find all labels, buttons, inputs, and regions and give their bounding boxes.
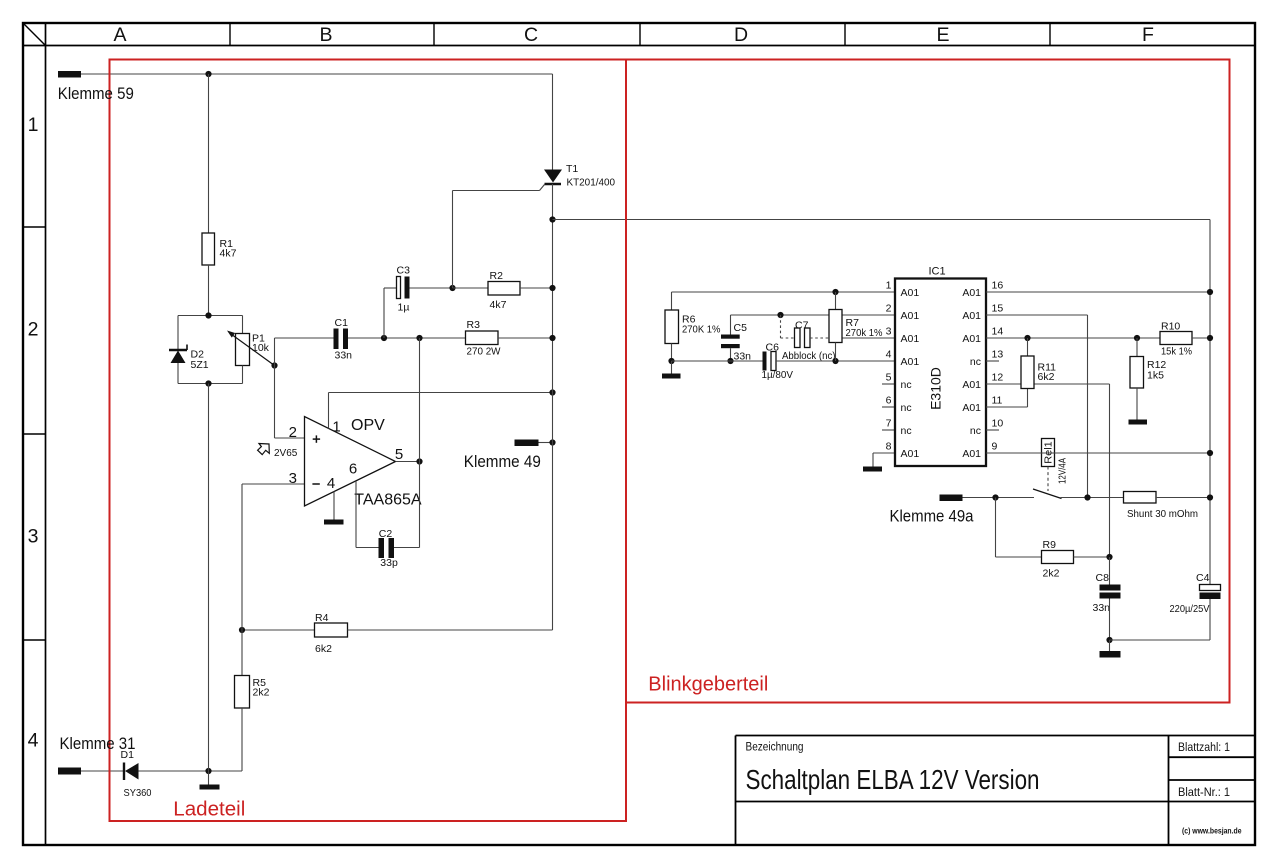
terminal Klemme 31 (58, 768, 81, 775)
svg-text:Bezeichnung: Bezeichnung (746, 740, 804, 754)
relay actuation dashed link (1047, 467, 1049, 492)
capacitor C6 (763, 352, 767, 371)
wire D2 box to bottom rail (208, 384, 210, 772)
resistor R4 (242, 629, 315, 631)
svg-text:A01: A01 (901, 333, 920, 345)
wire to R6 (671, 292, 673, 310)
svg-text:A01: A01 (962, 448, 981, 460)
wire shunt to rail (1156, 497, 1210, 499)
svg-text:12V/4A: 12V/4A (1057, 458, 1069, 484)
capacitor C8 (1109, 557, 1111, 585)
svg-text:4: 4 (28, 730, 39, 752)
svg-text:nc: nc (970, 425, 981, 437)
node R1 top (205, 71, 211, 77)
svg-text:Blatt-Nr.: 1: Blatt-Nr.: 1 (1178, 785, 1230, 799)
wire R5 to D1 rail (241, 708, 243, 771)
capacitor C1 (334, 329, 339, 350)
svg-text:C1: C1 (335, 317, 349, 329)
svg-text:270k 1%: 270k 1% (846, 327, 883, 339)
node feedback branch (416, 335, 422, 341)
wire pin2 (275, 437, 305, 439)
node pin15 junction (1084, 494, 1090, 500)
wire pin6 nc stub (882, 406, 895, 408)
wire D2 branch (177, 316, 179, 384)
svg-text:4: 4 (886, 349, 892, 361)
node pin9 rail (1207, 450, 1213, 456)
wire to R1 (208, 74, 210, 233)
resistor R10 (1160, 332, 1192, 345)
wire switch to shunt (1061, 497, 1124, 499)
svg-text:270 2W: 270 2W (467, 346, 501, 358)
svg-text:6k2: 6k2 (315, 643, 332, 655)
node output (416, 458, 422, 464)
svg-text:1: 1 (28, 114, 39, 136)
svg-text:Shunt 30 mOhm: Shunt 30 mOhm (1127, 508, 1198, 520)
svg-text:15: 15 (992, 303, 1004, 315)
svg-text:A01: A01 (962, 402, 981, 414)
node C3 branch (381, 335, 387, 341)
wire pin11 net (986, 406, 1028, 408)
svg-text:R9: R9 (1043, 539, 1057, 551)
svg-text:Rel1: Rel1 (1043, 441, 1055, 464)
svg-text:Ladeteil: Ladeteil (173, 799, 245, 821)
svg-text:E310D: E310D (928, 367, 944, 410)
wire R6 bottom (671, 344, 673, 362)
wire R2 to rail (520, 287, 553, 289)
wire Klemme49a to switch (963, 497, 1035, 499)
svg-text:10: 10 (992, 418, 1004, 430)
svg-text:A: A (113, 24, 126, 46)
capacitor C4 electrolytic (1200, 585, 1221, 591)
svg-text:5Z1: 5Z1 (191, 359, 209, 371)
resistor R3 (466, 331, 499, 345)
svg-text:nc: nc (901, 379, 912, 391)
svg-text:SY360: SY360 (124, 787, 152, 799)
terminal Klemme 49a (940, 495, 963, 502)
node R2 (549, 285, 555, 291)
svg-text:6: 6 (349, 461, 357, 478)
resistor R6 (665, 310, 679, 344)
wire R4 to rail (348, 629, 553, 631)
node R4 left (239, 627, 245, 633)
node C7 tap (777, 312, 783, 318)
svg-text:E: E (936, 24, 949, 46)
wire pin6 down (355, 481, 357, 548)
svg-text:IC1: IC1 (928, 266, 945, 278)
svg-text:A01: A01 (901, 448, 920, 460)
svg-text:R10: R10 (1161, 321, 1180, 333)
svg-text:2k2: 2k2 (1043, 568, 1060, 580)
relay switch contact (1033, 489, 1062, 499)
svg-text:10k: 10k (252, 342, 270, 354)
wire C3 branch vertical (383, 288, 385, 338)
Blinkgeberteil region box (626, 60, 1230, 703)
svg-text:2V65: 2V65 (274, 448, 298, 459)
wire right main vertical (1209, 220, 1211, 585)
node R6/gnd (668, 358, 674, 364)
node box top (205, 312, 211, 318)
node R10 rail (1207, 335, 1213, 341)
node R9 branch (992, 494, 998, 500)
svg-text:2: 2 (886, 303, 892, 315)
svg-text:Blattzahl: 1: Blattzahl: 1 (1178, 740, 1230, 754)
svg-text:3: 3 (289, 470, 297, 487)
node right branch (549, 216, 555, 222)
wire C5 bottom (730, 348, 732, 361)
svg-text:C5: C5 (734, 322, 748, 334)
wire top rail Klemme59 to T1 (81, 73, 553, 75)
svg-text:TAA865A: TAA865A (354, 492, 422, 509)
svg-text:R2: R2 (490, 270, 504, 282)
svg-text:(c) www.besjan.de: (c) www.besjan.de (1182, 826, 1242, 836)
svg-text:A01: A01 (962, 379, 981, 391)
svg-text:1: 1 (332, 419, 340, 436)
Ladeteil region box (110, 60, 627, 822)
svg-text:3: 3 (886, 326, 892, 338)
svg-text:nc: nc (970, 356, 981, 368)
node R12 top (1134, 335, 1140, 341)
node pin16 rail (1207, 289, 1213, 295)
svg-text:C: C (524, 24, 538, 46)
svg-text:C6: C6 (766, 342, 780, 354)
node wiper (271, 362, 277, 368)
svg-text:6: 6 (886, 395, 892, 407)
wire box bottom (178, 383, 243, 385)
svg-text:6k2: 6k2 (1038, 371, 1055, 383)
resistor R2 (453, 287, 489, 289)
svg-text:Klemme 59: Klemme 59 (58, 85, 134, 103)
wire R3 to rail (498, 337, 553, 339)
wire pin12 net (986, 383, 1110, 385)
node R3 (549, 335, 555, 341)
ground R6 (671, 361, 673, 374)
wire top branch to right part (553, 219, 1211, 221)
wire pin16 net (986, 291, 1210, 293)
svg-text:Blinkgeberteil: Blinkgeberteil (648, 674, 768, 696)
ground pin8 (863, 467, 882, 472)
svg-text:nc: nc (901, 402, 912, 414)
svg-text:1k5: 1k5 (1147, 370, 1164, 382)
svg-text:A01: A01 (901, 356, 920, 368)
wire pin1 to rail (329, 392, 553, 394)
wire to C5 (730, 315, 732, 335)
svg-text:OPV: OPV (351, 417, 385, 434)
svg-text:12: 12 (992, 372, 1004, 384)
resistor R9 (995, 498, 997, 558)
resistor R1 (202, 233, 215, 265)
wire pin1 net (672, 291, 896, 293)
title block (736, 736, 1256, 846)
svg-text:A01: A01 (962, 287, 981, 299)
svg-text:nc: nc (901, 425, 912, 437)
svg-text:14: 14 (992, 326, 1004, 338)
wire pin3 (242, 483, 305, 485)
wire C2 to feedback (394, 547, 420, 549)
svg-text:1µ: 1µ (398, 302, 410, 314)
capacitor C7 plate (795, 328, 801, 348)
svg-text:4: 4 (327, 475, 335, 492)
svg-text:2: 2 (289, 424, 297, 441)
wire to C2 (356, 547, 379, 549)
capacitor C5 (721, 335, 740, 339)
svg-text:8: 8 (886, 441, 892, 453)
node R11 top (1024, 335, 1030, 341)
node box bottom (205, 380, 211, 386)
resistor R7 (835, 292, 837, 310)
wire R1 to D2/P1 box (208, 265, 210, 316)
ground C8 (1109, 640, 1111, 651)
wire pin3 node down to R5 (241, 484, 243, 676)
wire pin1 riser (328, 393, 330, 429)
terminal Klemme 59 (58, 71, 81, 78)
node R7 top (832, 289, 838, 295)
resistor R11 (1027, 338, 1029, 356)
capacitor C7 dashed net (780, 315, 782, 338)
wire pin15 net (986, 314, 1088, 316)
node R9/C8 (1106, 554, 1112, 560)
svg-text:1µ/80V: 1µ/80V (762, 369, 794, 381)
wire pin8 to ground (873, 452, 895, 454)
svg-text:A01: A01 (901, 287, 920, 299)
wire main vertical rail (552, 184, 554, 630)
svg-text:16: 16 (992, 280, 1004, 292)
wire P1 bottom (242, 366, 244, 384)
node shunt rail (1207, 494, 1213, 500)
svg-text:13: 13 (992, 349, 1004, 361)
svg-text:7: 7 (886, 418, 892, 430)
svg-text:Abblock (nc): Abblock (nc) (782, 350, 836, 362)
plus input symbol (313, 438, 320, 440)
wire rail to T1 (552, 74, 554, 170)
svg-text:Klemme 49a: Klemme 49a (890, 508, 975, 526)
diode D1 (123, 763, 125, 781)
svg-text:Klemme 49: Klemme 49 (464, 453, 541, 471)
node ground bottom (205, 768, 211, 774)
wire to C3 (384, 287, 397, 289)
svg-text:220µ/25V: 220µ/25V (1170, 603, 1210, 615)
wire box top (178, 315, 243, 317)
svg-text:4k7: 4k7 (220, 248, 237, 260)
svg-text:5: 5 (395, 446, 403, 463)
potentiometer P1 (236, 334, 250, 366)
wire pin10 nc stub (986, 429, 999, 431)
wire wiper node vertical (274, 338, 276, 438)
wire to P1 (242, 316, 244, 334)
wire pin4 net (672, 360, 763, 362)
svg-text:A01: A01 (901, 310, 920, 322)
node C8 gnd (1106, 637, 1112, 643)
svg-text:33n: 33n (335, 350, 353, 362)
svg-text:C2: C2 (379, 528, 393, 540)
node Klemme49 (549, 439, 555, 445)
svg-text:C8: C8 (1096, 572, 1110, 584)
svg-text:15k 1%: 15k 1% (1161, 346, 1192, 358)
svg-text:KT201/400: KT201/400 (567, 177, 616, 189)
wire pin9 to rail (986, 452, 1210, 454)
svg-text:D: D (734, 24, 748, 46)
svg-text:3: 3 (28, 526, 39, 548)
2V65 measure arrow (258, 444, 270, 455)
wire pin2 net (731, 314, 896, 316)
svg-text:2k2: 2k2 (253, 687, 270, 699)
svg-text:A01: A01 (962, 333, 981, 345)
ground R12 (1129, 420, 1148, 425)
svg-text:D1: D1 (121, 749, 135, 761)
svg-text:C4: C4 (1196, 572, 1210, 584)
wire D1 to R5 (139, 770, 243, 772)
node pin1 rail (549, 389, 555, 395)
svg-text:270K 1%: 270K 1% (682, 324, 721, 336)
svg-text:1: 1 (886, 280, 892, 292)
relay coil Rel1 (1042, 439, 1055, 467)
svg-text:C7: C7 (795, 319, 809, 331)
wire C1 to R3 (348, 337, 466, 339)
wire pin3 (843, 337, 896, 339)
svg-text:F: F (1142, 24, 1154, 46)
wire pin14 net (986, 337, 1160, 339)
svg-text:B: B (319, 24, 332, 46)
wire pin5 nc stub (882, 383, 895, 385)
P1 wiper arrow (231, 334, 275, 366)
node gate (449, 285, 455, 291)
IC U IC1 E310D (895, 279, 986, 467)
svg-text:A01: A01 (962, 310, 981, 322)
minus input symbol (312, 483, 319, 485)
wire Klemme49 stub (539, 442, 553, 444)
shunt resistor (1124, 492, 1157, 504)
svg-text:4k7: 4k7 (490, 299, 507, 311)
svg-text:R4: R4 (315, 612, 329, 624)
wire Klemme31 to D1 (81, 770, 123, 772)
node R7 bottom (832, 358, 838, 364)
svg-text:Schaltplan ELBA 12V Version: Schaltplan ELBA 12V Version (746, 764, 1040, 795)
wire output pin5 (396, 461, 420, 463)
wire C4 to C8 ground node (1110, 639, 1211, 641)
svg-text:C3: C3 (397, 265, 411, 277)
wire pin7 nc stub (882, 429, 895, 431)
capacitor C7 plate (805, 328, 811, 348)
T1 gate wire (540, 185, 545, 191)
Blinkgeberteil box edge over wire patch (625, 214, 627, 225)
ground bottom left (208, 771, 210, 785)
svg-text:T1: T1 (566, 163, 578, 175)
svg-text:5: 5 (886, 372, 892, 384)
wire feedback vertical (419, 338, 421, 548)
ground op-amp pin4 (333, 492, 335, 520)
Ladeteil box edge over wire patch (109, 69, 111, 79)
svg-text:33n: 33n (1093, 602, 1111, 614)
svg-text:2: 2 (28, 319, 39, 341)
svg-text:11: 11 (992, 395, 1003, 407)
wire to C1 (275, 337, 334, 339)
terminal Klemme 49 (515, 440, 539, 447)
svg-text:R3: R3 (467, 319, 481, 331)
svg-text:33p: 33p (380, 557, 398, 569)
wire C3 to gate node (410, 287, 453, 289)
resistor R12 (1136, 338, 1138, 357)
capacitor C2 (379, 538, 385, 558)
svg-text:9: 9 (992, 441, 998, 453)
wire pin13 nc stub (986, 360, 999, 362)
zener diode D2 (171, 351, 186, 364)
node C5/pin4 (727, 358, 733, 364)
